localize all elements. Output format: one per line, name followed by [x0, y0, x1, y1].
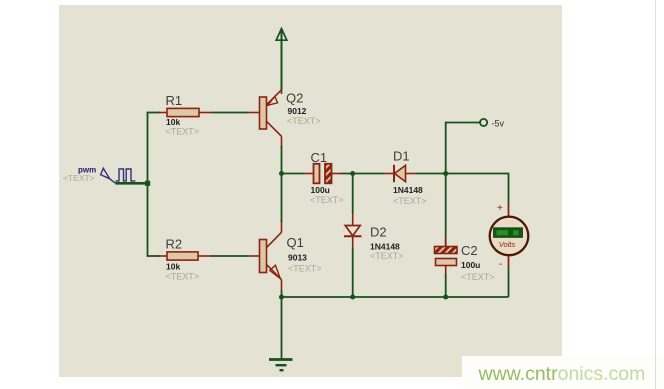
ground: [269, 360, 293, 371]
svg-text:-5v: -5v: [492, 118, 505, 128]
svg-text:<TEXT>: <TEXT>: [63, 173, 95, 183]
svg-text:9013: 9013: [288, 253, 307, 263]
capacitor C2 (polarized 100u, plus up): [435, 174, 458, 275]
wire R2 to Q1 base: [211, 255, 248, 257]
wire pwm to left rail: [115, 182, 148, 185]
svg-text:+: +: [497, 203, 503, 214]
wire rail corner to R2 left pin: [147, 255, 160, 257]
svg-text:<TEXT>: <TEXT>: [288, 264, 322, 274]
wire R1 to Q2 base: [211, 112, 248, 114]
wire bottom rail: [282, 296, 509, 298]
terminal -5v: [480, 119, 487, 126]
junction D2 top node: [350, 171, 355, 176]
junction bottom rail at D2: [350, 295, 355, 300]
transistor Q2 (PNP 9012): [248, 90, 282, 148]
wire Q2 collector to Q1 collector (through mid junction): [281, 146, 283, 222]
svg-text:Q1: Q1: [287, 235, 304, 250]
svg-text:D1: D1: [393, 148, 410, 163]
svg-text:<TEXT>: <TEXT>: [393, 196, 427, 206]
svg-text:<TEXT>: <TEXT>: [310, 195, 344, 205]
resistor R2: [158, 252, 211, 260]
wire -5v terminal branch: [446, 123, 480, 174]
pwm source generator symbol: [101, 168, 136, 183]
wire rail corner to R1 left pin: [147, 112, 160, 114]
power terminal (up arrow): [276, 29, 287, 41]
voltmeter U1 (Volts): [490, 203, 529, 270]
svg-text:R1: R1: [166, 93, 183, 108]
svg-text:<TEXT>: <TEXT>: [287, 116, 321, 126]
svg-text:9012: 9012: [288, 106, 307, 116]
svg-text:Q2: Q2: [286, 90, 303, 105]
svg-text:1N4148: 1N4148: [393, 185, 423, 195]
svg-text:100u: 100u: [461, 260, 480, 270]
wire mid junction to C1: [282, 173, 305, 175]
svg-text:10k: 10k: [166, 117, 180, 127]
svg-text:C1: C1: [311, 150, 328, 165]
svg-text:R2: R2: [166, 237, 183, 252]
junction mid node at collectors: [279, 171, 284, 176]
svg-text:1N4148: 1N4148: [370, 242, 400, 252]
junction -5v node above C2: [443, 171, 448, 176]
wire D2 to bottom rail: [352, 248, 354, 297]
wire left rail vertical (R1 to R2): [147, 113, 149, 257]
svg-text:Volts: Volts: [499, 240, 516, 249]
svg-text:<TEXT>: <TEXT>: [166, 271, 200, 281]
junction bottom rail at C2: [443, 295, 448, 300]
svg-text:<TEXT>: <TEXT>: [370, 251, 404, 261]
wire D1 to -5v junction and on to voltmeter corner: [416, 174, 509, 205]
svg-text:D2: D2: [370, 225, 387, 240]
wire power arrow to Q2 emitter: [281, 30, 283, 90]
svg-text:<TEXT>: <TEXT>: [166, 127, 200, 137]
svg-text:C2: C2: [461, 243, 478, 258]
svg-text:<TEXT>: <TEXT>: [461, 272, 495, 282]
transistor Q1 (NPN 9013): [248, 220, 282, 290]
svg-text:100u: 100u: [311, 185, 330, 195]
wire C1 to D2 junction: [341, 173, 384, 175]
resistor R1: [158, 108, 211, 116]
svg-text:-: -: [499, 259, 502, 270]
wire voltmeter to bottom rail: [508, 267, 510, 297]
diode D2 (1N4148, cathode down): [344, 174, 362, 249]
junction pwm/rail: [145, 181, 150, 186]
svg-text:10k: 10k: [166, 262, 180, 272]
diode D1 (1N4148, cathode left): [384, 165, 416, 182]
wire Q1 emitter to ground: [281, 290, 283, 360]
wire C2 to bottom rail: [445, 274, 447, 297]
capacitor C1 (polarized 100u): [304, 164, 341, 184]
junction bottom rail at Q1 emitter: [279, 295, 284, 300]
svg-text:www.cntronics.com: www.cntronics.com: [478, 363, 646, 385]
